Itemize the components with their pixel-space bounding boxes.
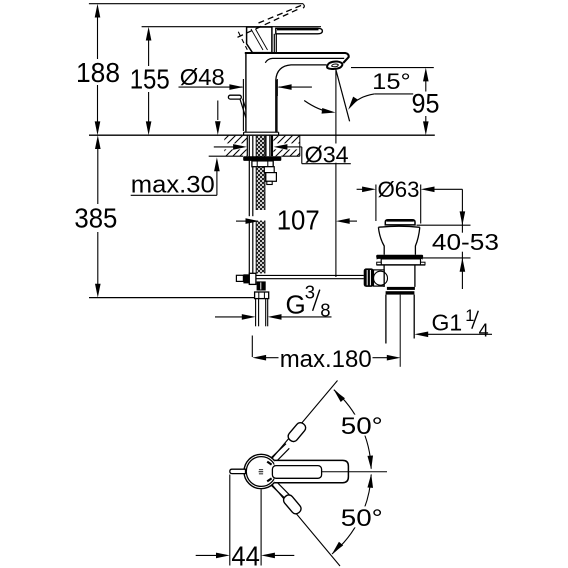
dimension diameter 34 arrows [214,141,351,167]
label G 3/8 with arrows [215,282,332,321]
spout stub (pointing left) [230,469,246,473]
knurled knob [364,268,374,287]
50deg label lower [340,505,384,532]
svg-text:40-53: 40-53 [432,229,499,255]
svg-text:155: 155 [130,63,170,94]
svg-text:G1: G1 [432,310,463,336]
svg-text:max.180: max.180 [280,346,372,373]
dimension max.180 [252,336,400,374]
handle lever inner outline [272,466,321,479]
handle lever outer outline [274,460,348,482]
faucet body left edge [245,53,247,132]
upper 50deg arc [334,390,371,469]
drain pull-rod knob [228,95,246,118]
circle-arm junction ticks [267,462,271,465]
locking ring band [381,259,420,265]
handle blade (rest position) [276,28,323,34]
dimension 107 [236,205,357,236]
drain pop-up waste assembly [364,220,425,367]
faucet base plate [244,132,279,135]
drain: diameter 63 dimension [357,177,463,223]
counter underside line [209,155,244,157]
handle base (cartridge cover) [247,27,272,53]
svg-text:max.30: max.30 [131,171,215,198]
faucet spout top edge [245,53,349,63]
threaded shank (cross-hatched) [250,94,272,292]
dimension 385 [74,135,255,297]
svg-text:G: G [286,290,306,320]
svg-text:50°: 50° [341,505,383,532]
svg-text:107: 107 [277,205,320,236]
svg-text:188: 188 [76,57,120,88]
svg-text:Ø63: Ø63 [378,177,420,202]
ball-rod housing [374,270,385,286]
svg-text:3: 3 [305,282,315,303]
50deg label upper [340,413,384,440]
tailpipe [385,295,387,344]
pop-up cap [385,220,415,225]
15 deg slanted water line [336,69,350,121]
mounting nut [252,161,273,167]
countertop hatch section [218,135,307,157]
dimension diameter 48 [179,64,312,131]
vertical plumb line from aerator / 107 extension [335,71,337,278]
svg-text:50°: 50° [341,413,383,440]
countertop line [89,134,435,136]
15 deg label and leader [346,69,413,111]
raised handle (dashed) [238,4,305,49]
waste body cylinder [383,265,385,287]
svg-text:Ø48: Ø48 [180,64,225,90]
spout second line [265,58,344,62]
swing ray lower 50deg [272,485,340,567]
mounting washer [243,156,281,161]
body outer circle (top view) [244,454,278,488]
bottom rings [387,287,415,290]
top reference line (max handle height 188) [89,3,304,5]
svg-text:Ø34: Ø34 [305,141,349,167]
dimension max.30 [131,101,221,199]
flange [378,226,419,227]
dimension 40-53 [417,189,499,289]
label G 1 1/4 [414,307,492,341]
handle arm rotated -50deg [271,481,303,516]
dimension 95 [412,68,440,136]
svg-text:1: 1 [465,307,474,325]
svg-text:15°: 15° [372,69,411,94]
lower 50deg arc [332,475,371,555]
handle neck [273,34,275,53]
dimension 188 [76,4,120,136]
15 deg angle arc left [304,101,331,113]
svg-text:44: 44 [231,541,260,568]
svg-text:4: 4 [479,321,489,341]
pull rod below counter [249,136,253,274]
155 reference line (handle rest height) [142,26,321,28]
centerline of lever [322,471,387,473]
mounting hole edges [246,135,248,156]
horizontal linkage rod [256,275,364,278]
body right edge [276,80,278,132]
95 top reference line at outlet level [351,67,434,69]
hose nipple [264,167,276,185]
body inner circle [246,457,276,487]
pull rod clevis [236,273,256,284]
spout underside curve [276,65,327,132]
handle arm rotated +50deg [271,421,307,462]
rubber gasket [376,255,423,260]
tiny logo inside circle [259,469,264,474]
svg-text:8: 8 [320,300,330,321]
G 3/8 nut [255,292,269,299]
dimension 155 [130,27,170,136]
supply connection block [257,281,266,290]
swing ray upper 50deg [272,381,338,459]
aerator [327,61,342,69]
svg-text:385: 385 [74,202,117,233]
dimension 44 [196,475,295,568]
supply pipe [256,299,268,327]
svg-text:95: 95 [412,88,440,118]
